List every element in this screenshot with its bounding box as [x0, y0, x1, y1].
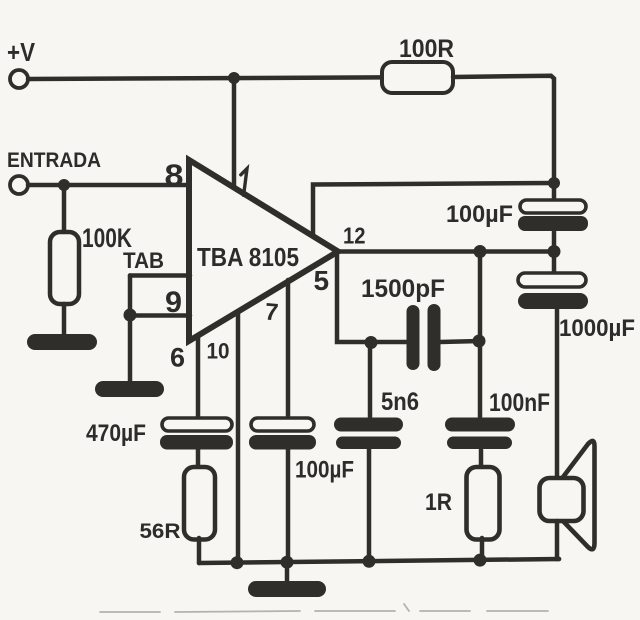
- capacitor C7 1000uF: [518, 273, 635, 342]
- wire 56R to ground rail: [197, 538, 202, 563]
- wire pin 5 to 1500pF: [337, 253, 406, 342]
- ground (main): [248, 581, 326, 597]
- wire 100R to right rail: [453, 76, 554, 200]
- node input junction: [58, 179, 70, 191]
- resistor R2 100K: [50, 223, 132, 304]
- terminal ENTRADA: [7, 149, 101, 194]
- wire 1R to rail: [480, 538, 485, 560]
- wire pin 1: [232, 78, 237, 192]
- wire junction to 100K: [62, 185, 67, 233]
- node TAB junction: [124, 309, 137, 322]
- svg-text:TAB: TAB: [123, 248, 164, 273]
- svg-text:6: 6: [170, 343, 185, 373]
- terminal +V: [7, 37, 36, 88]
- svg-text:ENTRADA: ENTRADA: [7, 149, 101, 172]
- svg-text:1500pF: 1500pF: [361, 275, 445, 303]
- wire pin 12 output: [337, 249, 554, 254]
- capacitor C3 5n6: [334, 388, 419, 449]
- wire input to pin 8: [28, 183, 190, 188]
- wire 1000uF to speaker: [555, 309, 560, 479]
- svg-text:8: 8: [165, 158, 184, 193]
- svg-text:100µF: 100µF: [295, 457, 354, 484]
- wire 100uF to pin12 node: [552, 231, 557, 273]
- node pin7/rail junction: [281, 556, 294, 569]
- node 5n6/rail junction: [363, 555, 376, 568]
- resistor R4 1R: [425, 467, 500, 540]
- wire 470uF to 56R: [196, 449, 201, 468]
- wire pin 10: [236, 311, 241, 563]
- wire 5n6 to rail: [367, 447, 372, 562]
- capacitor C5 100nF: [445, 389, 550, 449]
- ground (TAB): [95, 381, 164, 397]
- wire ground stem (main): [285, 562, 290, 585]
- capacitor C6 100uF (right): [446, 200, 588, 231]
- resistor R3 56R: [140, 467, 216, 543]
- caption remnant (cut-off text at bottom): [100, 604, 548, 612]
- node pin12/right rail junction: [548, 245, 561, 258]
- node feedback junction: [548, 177, 560, 189]
- wire pin 9: [130, 313, 190, 318]
- node 1500pF right junction: [473, 335, 486, 348]
- wire +V supply rail: [28, 77, 383, 79]
- svg-text:10: 10: [207, 339, 230, 364]
- wire TAB vertical: [128, 276, 133, 383]
- wire pin 7: [286, 280, 291, 419]
- pin 1 label: [241, 169, 247, 196]
- wire 5n6: [368, 342, 373, 417]
- svg-text:100µF: 100µF: [446, 201, 513, 228]
- wire 100uF to rail: [286, 449, 291, 563]
- wire ground rail: [199, 559, 559, 563]
- wire feedback from op-amp top edge: [313, 183, 554, 236]
- svg-text:7: 7: [264, 298, 280, 326]
- node 5n6 junction: [365, 336, 378, 349]
- svg-text:470µF: 470µF: [86, 420, 146, 447]
- svg-text:12: 12: [343, 223, 366, 249]
- svg-text:+V: +V: [7, 37, 36, 67]
- ground (below 100K): [27, 334, 97, 350]
- resistor R1 100R: [382, 35, 454, 93]
- svg-text:100nF: 100nF: [489, 389, 550, 417]
- wire 100K to ground: [62, 304, 67, 340]
- capacitor C1 470uF: [86, 418, 233, 450]
- capacitor C2 100uF (pin 7): [249, 418, 354, 484]
- svg-text:100R: 100R: [399, 35, 454, 63]
- svg-text:5n6: 5n6: [381, 388, 419, 416]
- wire pin 6: [196, 337, 201, 419]
- wire 100nF to 1R: [479, 450, 484, 467]
- node pin10/rail junction: [231, 556, 244, 569]
- node 1R/rail junction: [474, 554, 487, 567]
- capacitor C4 1500pF: [361, 275, 445, 371]
- svg-text:TBA 8105: TBA 8105: [197, 242, 299, 272]
- wire pin12 branch vertical: [478, 252, 483, 419]
- svg-text:5: 5: [314, 265, 330, 296]
- op-amp U1 TBA 8105: [189, 160, 338, 341]
- svg-text:1R: 1R: [425, 489, 452, 516]
- node pin1/supply junction: [228, 72, 240, 84]
- wire TAB top: [130, 273, 190, 278]
- speaker LS1: [540, 441, 595, 549]
- svg-text:56R: 56R: [140, 519, 181, 543]
- wire speaker to rail: [557, 521, 559, 559]
- wire 1500pF right: [440, 341, 480, 342]
- svg-text:1000µF: 1000µF: [559, 315, 635, 342]
- node pin12 branch junction: [474, 245, 487, 258]
